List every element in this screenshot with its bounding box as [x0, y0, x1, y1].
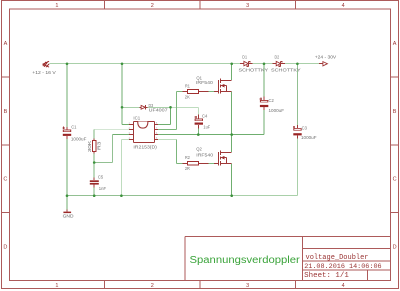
wire COM pin4 to ground rail: [121, 140, 128, 196]
wire Q1 source to VS: [231, 92, 233, 135]
capacitor C2: [260, 97, 285, 114]
svg-text:IR2153(D): IR2153(D): [133, 144, 157, 149]
wire VB to C4: [171, 107, 199, 117]
svg-text:A: A: [4, 41, 8, 47]
svg-text:D: D: [3, 245, 7, 251]
capacitor C1: [63, 125, 87, 142]
transistor Q1 IRF540: [214, 79, 232, 94]
svg-text:Spannungsverdoppler: Spannungsverdoppler: [190, 255, 301, 266]
wire RT pin2 to R3: [94, 128, 129, 130]
node D3 anode: [121, 106, 124, 109]
wire R3 top: [93, 129, 95, 140]
svg-text:3: 3: [246, 283, 249, 289]
svg-text:2K: 2K: [185, 94, 190, 99]
capacitor C5: [90, 175, 106, 191]
svg-text:D1: D1: [242, 55, 247, 60]
output arrow +24-30V: [319, 62, 328, 66]
frame column ticks bottom: [104, 281, 295, 289]
wire LO pin5 to R2: [158, 139, 177, 141]
resistor R1: [183, 83, 209, 99]
svg-text:voltage_Doubler: voltage_Doubler: [306, 254, 369, 262]
wire D3 cathode to VB node: [148, 106, 171, 108]
wire R1 to Q1 gate: [209, 91, 215, 93]
svg-text:R3: R3: [97, 141, 102, 150]
svg-text:4: 4: [342, 283, 345, 289]
svg-text:2: 2: [151, 283, 154, 289]
wire C1 branch: [66, 64, 68, 196]
svg-text:C5: C5: [98, 175, 104, 180]
node gnd-C5: [93, 194, 96, 197]
svg-text:3: 3: [246, 3, 249, 9]
wire rail D2 to output: [285, 63, 319, 65]
ground: [63, 209, 75, 218]
capacitor C3: [293, 125, 317, 140]
svg-text:C3: C3: [302, 125, 308, 130]
svg-text:B: B: [393, 109, 397, 115]
svg-text:C2: C2: [269, 98, 275, 103]
svg-text:IRF540: IRF540: [196, 80, 213, 85]
svg-text:2R: 2R: [185, 166, 191, 171]
node CT-R3-C5: [93, 161, 96, 164]
wire Q2 drain: [231, 135, 233, 152]
diode D2 schottky: [271, 55, 301, 73]
supply arrow +12V: [43, 61, 49, 67]
node gnd-Q2: [230, 194, 233, 197]
svg-text:GND: GND: [63, 213, 75, 218]
wire HO pin7 to R1: [158, 92, 183, 130]
node D1-D2-C2: [263, 63, 266, 66]
svg-text:1: 1: [55, 283, 58, 289]
resistor R2: [183, 155, 209, 171]
svg-text:2: 2: [151, 3, 154, 9]
wire top +12V rail: [50, 63, 241, 65]
node rail-VCC: [121, 63, 124, 66]
svg-text:IC1: IC1: [133, 115, 140, 120]
svg-text:21.08.2016 14:06:06: 21.08.2016 14:06:06: [304, 263, 381, 271]
wire GND drop: [66, 196, 68, 210]
frame column ticks top: [104, 1, 295, 10]
svg-text:+12 - 16 V: +12 - 16 V: [32, 70, 56, 76]
wire C4 bottom: [197, 126, 199, 135]
svg-text:C1: C1: [71, 125, 77, 130]
wire VCC branch x122: [122, 64, 129, 125]
wire CT pin3: [113, 134, 129, 136]
frame row ticks left: [1, 77, 9, 213]
svg-text:C4: C4: [202, 114, 208, 119]
svg-text:R2: R2: [185, 155, 190, 160]
node junction dots: [66, 63, 299, 198]
svg-text:Q2: Q2: [196, 147, 202, 152]
capacitor C4: [195, 114, 211, 130]
title block: [185, 237, 391, 281]
svg-text:1: 1: [55, 3, 58, 9]
svg-text:A: A: [393, 41, 397, 47]
diode D1 schottky: [239, 55, 269, 73]
svg-text:B: B: [4, 109, 8, 115]
wire rail between D1 D2: [253, 63, 273, 65]
node VS-C4: [197, 133, 200, 136]
svg-text:1000uF: 1000uF: [71, 136, 87, 141]
svg-text:4: 4: [342, 3, 345, 9]
node VS-halfbridge: [230, 133, 233, 136]
wire C2 branch: [263, 64, 265, 135]
node VB: [169, 106, 172, 109]
svg-text:1uF: 1uF: [203, 124, 210, 129]
node rail-Q1 drain: [230, 63, 233, 66]
svg-text:1000uF: 1000uF: [269, 108, 285, 113]
IC1 pin stubs right: [155, 124, 159, 139]
wire C5 bottom: [93, 185, 95, 196]
svg-text:SCHOTTKY: SCHOTTKY: [239, 67, 269, 72]
svg-text:D2: D2: [275, 55, 280, 60]
wire Q1 drain: [231, 64, 233, 81]
IC IC1 IR2153(D): [129, 115, 159, 149]
transistor Q2 IRF540: [214, 151, 232, 166]
wire R2 to Q2 gate: [209, 163, 215, 165]
svg-text:1nF: 1nF: [99, 186, 106, 191]
wire ground rail: [67, 195, 232, 197]
resistor R3: [87, 139, 102, 154]
svg-text:R1: R1: [185, 83, 190, 88]
wire VS node pin6: [158, 134, 264, 136]
wire Q2 source to ground rail: [231, 164, 233, 196]
wire VB node to pin8: [158, 107, 171, 124]
svg-text:C: C: [393, 177, 397, 183]
node rail-C1: [66, 63, 69, 66]
svg-text:+24 - 30V: +24 - 30V: [315, 55, 337, 61]
svg-text:UF4007: UF4007: [149, 108, 169, 113]
wire R3 bottom to CT node: [93, 152, 95, 180]
svg-text:IRF540: IRF540: [196, 153, 213, 158]
svg-text:1000uF: 1000uF: [301, 135, 317, 140]
IC1 pin stubs left: [129, 124, 133, 139]
svg-text:SCHOTTKY: SCHOTTKY: [271, 67, 301, 72]
svg-text:Sheet: 1/1: Sheet: 1/1: [304, 272, 349, 280]
diode D3 UF4007: [140, 103, 169, 113]
svg-text:30K: 30K: [87, 141, 92, 153]
wire D3 anode: [122, 106, 140, 108]
node gnd-COM: [120, 194, 123, 197]
frame row ticks right: [391, 77, 399, 213]
svg-text:D: D: [393, 245, 397, 251]
node gnd-C1: [66, 194, 69, 197]
node D2-out-C3: [296, 63, 299, 66]
svg-text:C: C: [3, 177, 7, 183]
wire C3 branch: [296, 64, 298, 128]
